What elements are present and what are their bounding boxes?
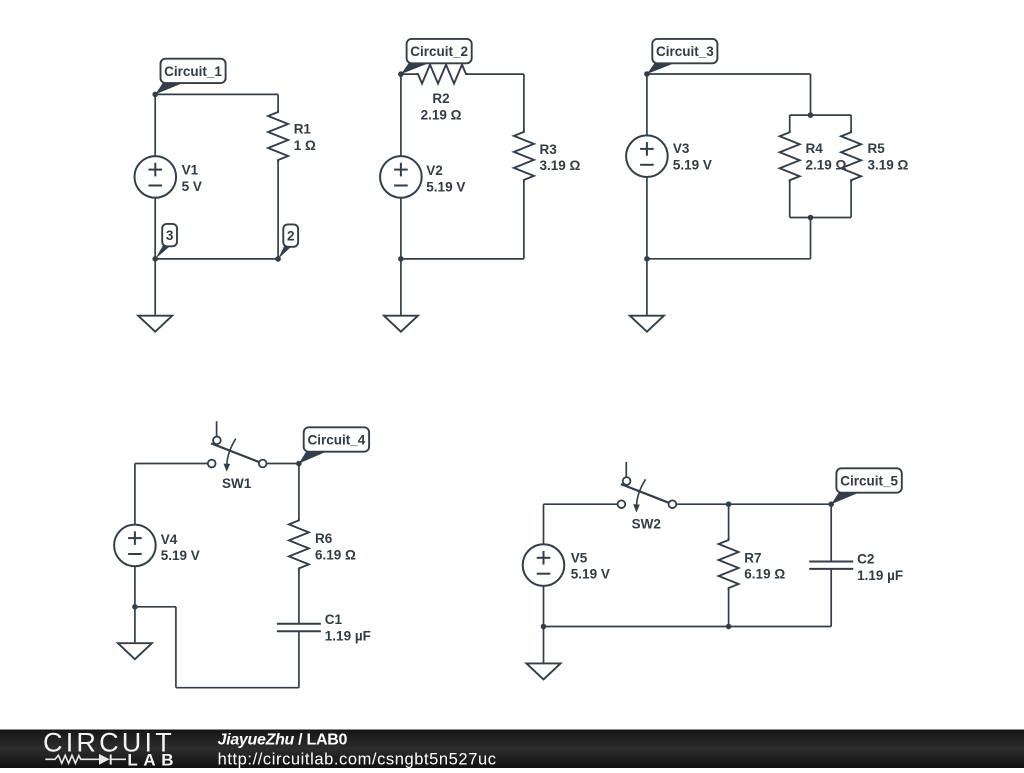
wire parallel bottom bracket circuit 3 — [790, 217, 851, 219]
wire left rail lower circuit 3 — [646, 177, 648, 259]
wire top rail circuit 2 — [466, 73, 524, 75]
wire left rail lower circuit 5 — [543, 586, 545, 627]
svg-text:R1: R1 — [294, 122, 312, 137]
svg-text:SW1: SW1 — [222, 476, 252, 491]
wire ground stem circuit 5 — [543, 627, 545, 664]
svg-text:2: 2 — [287, 229, 295, 244]
V5 value label — [571, 550, 610, 581]
R5 value label — [868, 141, 909, 172]
wire left rail lower circuit 4 — [134, 566, 136, 607]
node 2 — [275, 256, 281, 262]
svg-text:LAB: LAB — [127, 750, 179, 768]
wire bottom rail circuit 5 — [544, 626, 832, 628]
wire right rail lower circuit 5 — [830, 569, 832, 627]
wire top rail circuit 3 — [647, 73, 811, 75]
wire R5 bottom stub — [850, 180, 852, 217]
wire right rail upper circuit 1 — [277, 94, 279, 112]
svg-text:C2: C2 — [857, 552, 874, 567]
node parallel top circuit 3 — [808, 112, 814, 118]
V2 value label — [426, 163, 465, 194]
R6 value label — [315, 531, 356, 562]
resistor R3 — [514, 130, 534, 182]
svg-text:3: 3 — [166, 228, 174, 243]
wire right rail lower circuit 1 — [277, 160, 279, 259]
wire left rail upper circuit 4 — [134, 464, 136, 525]
svg-text:V2: V2 — [426, 163, 443, 178]
resistor R4 — [780, 130, 800, 182]
svg-text:5.19 V: 5.19 V — [426, 179, 465, 194]
svg-text:V1: V1 — [182, 163, 199, 178]
wire right rail lower circuit 2 — [523, 180, 525, 259]
svg-text:Circuit_5: Circuit_5 — [840, 473, 898, 488]
svg-text:5 V: 5 V — [182, 179, 202, 194]
node R7 top circuit 5 — [726, 501, 732, 507]
switch SW2 — [618, 462, 677, 513]
svg-text:5.19 V: 5.19 V — [571, 567, 610, 582]
wire right rail lower circuit 4 — [298, 631, 300, 688]
wire ground stem circuit 2 — [400, 259, 402, 316]
wire top rail right circuit 4 — [267, 463, 299, 465]
svg-text:1.19 µF: 1.19 µF — [325, 628, 371, 643]
voltage source V2 — [380, 156, 422, 198]
wire bottom rail circuit 4 — [176, 687, 299, 689]
voltage source V5 — [523, 544, 565, 586]
C2 value label — [857, 552, 903, 583]
node top-left circuit 3 — [644, 71, 650, 77]
svg-text:5.19 V: 5.19 V — [161, 548, 200, 563]
wire bottom descent circuit 3 — [810, 218, 812, 259]
svg-text:R3: R3 — [540, 142, 558, 157]
capacitor C1 — [277, 624, 321, 631]
svg-text:Circuit_4: Circuit_4 — [308, 432, 366, 447]
svg-text:2.19 Ω: 2.19 Ω — [421, 108, 462, 123]
svg-text:Circuit_1: Circuit_1 — [164, 64, 222, 79]
CircuitLab logo — [43, 728, 179, 770]
ground circuit 1 — [138, 316, 172, 332]
wire bottom rail circuit 2 — [401, 258, 524, 260]
voltage source V1 — [135, 156, 177, 198]
R3 value label — [540, 142, 581, 173]
V3 value label — [673, 141, 712, 172]
wire R4 top stub — [789, 115, 791, 132]
svg-text:2.19 Ω: 2.19 Ω — [806, 158, 847, 173]
wire left rail upper circuit 1 — [154, 94, 156, 156]
label Circuit_4 — [299, 427, 369, 463]
svg-text:http://circuitlab.com/csngbt5n: http://circuitlab.com/csngbt5n527uc — [218, 750, 497, 768]
svg-text:R6: R6 — [315, 531, 333, 546]
resistor R5 — [841, 130, 861, 182]
node bottom circuit 3 — [644, 256, 650, 262]
wire bottom rail circuit 1 — [155, 258, 278, 260]
node 2 label — [278, 224, 298, 259]
wire R7 bottom stub — [728, 588, 730, 627]
ground circuit 2 — [384, 316, 418, 332]
wire top rail left circuit 4 — [135, 463, 208, 465]
wire left rail upper circuit 5 — [543, 504, 545, 544]
node 3 — [152, 256, 158, 262]
capacitor C2 — [809, 562, 853, 569]
wire ground stem circuit 1 — [154, 259, 156, 316]
wire bottom jog vertical circuit 4 — [175, 607, 177, 688]
svg-text:C1: C1 — [325, 612, 343, 627]
svg-text:1 Ω: 1 Ω — [294, 138, 316, 153]
V4 value label — [161, 532, 200, 563]
svg-text:6.19 Ω: 6.19 Ω — [315, 547, 356, 562]
svg-text:5.19 V: 5.19 V — [673, 157, 712, 172]
svg-text:Circuit_2: Circuit_2 — [410, 44, 468, 59]
node bottom-left circuit 4 — [132, 604, 138, 610]
wire left rail upper circuit 2 — [400, 74, 402, 156]
ground circuit 3 — [630, 316, 664, 332]
resistor R7 — [719, 538, 739, 590]
resistor R2 — [416, 65, 468, 84]
svg-text:3.19 Ω: 3.19 Ω — [540, 158, 581, 173]
svg-text:R2: R2 — [432, 91, 449, 106]
node parallel bottom circuit 3 — [808, 215, 814, 221]
wire ground stem circuit 4 — [134, 607, 136, 643]
svg-text:1.19 µF: 1.19 µF — [857, 568, 903, 583]
wire right descent circuit 3 — [810, 74, 812, 115]
wire top rail circuit 1 — [155, 93, 278, 95]
node top-left circuit 1 — [152, 92, 158, 98]
wire right rail upper circuit 2 — [523, 74, 525, 132]
wire bottom jog horizontal circuit 4 — [135, 606, 176, 608]
ground circuit 4 — [118, 643, 152, 659]
svg-text:3.19 Ω: 3.19 Ω — [868, 158, 909, 173]
R4 value label — [806, 141, 847, 172]
wire right rail upper circuit 4 — [298, 464, 300, 521]
node 3 label — [155, 224, 177, 259]
svg-text:V3: V3 — [673, 141, 690, 156]
wire parallel top bracket circuit 3 — [790, 114, 851, 116]
resistor R6 — [289, 518, 309, 570]
label Circuit_1 — [155, 59, 225, 95]
wire left rail lower circuit 2 — [400, 198, 402, 259]
node top-right circuit 5 — [828, 501, 834, 507]
wire left rail lower circuit 1 — [154, 198, 156, 259]
C1 value label — [325, 612, 371, 643]
V1 value label — [182, 163, 202, 194]
svg-text:SW2: SW2 — [632, 517, 661, 532]
switch SW1 — [208, 421, 267, 472]
svg-text:JiayueZhu / LAB0: JiayueZhu / LAB0 — [218, 732, 348, 749]
voltage source V3 — [626, 135, 668, 177]
svg-text:R7: R7 — [744, 550, 761, 565]
node R7 bottom circuit 5 — [726, 624, 732, 630]
ground circuit 5 — [527, 663, 561, 679]
wire bottom rail circuit 3 — [647, 258, 811, 260]
svg-text:6.19 Ω: 6.19 Ω — [744, 567, 785, 582]
wire top-left stub circuit 2 — [401, 73, 418, 75]
node top-left circuit 2 — [398, 71, 404, 77]
label Circuit_2 — [401, 39, 472, 74]
svg-text:Circuit_3: Circuit_3 — [656, 44, 714, 59]
node top-right circuit 4 — [296, 461, 302, 467]
R7 value label — [744, 550, 785, 581]
R1 value label — [294, 122, 316, 153]
wire right rail middle circuit 4 — [298, 568, 300, 623]
node bottom circuit 2 — [398, 256, 404, 262]
wire R5 top stub — [850, 115, 852, 132]
svg-text:R5: R5 — [868, 141, 886, 156]
node bottom-left circuit 5 — [541, 624, 547, 630]
wire R4 bottom stub — [789, 180, 791, 217]
label Circuit_5 — [831, 468, 902, 504]
wire R7 top stub — [728, 504, 730, 540]
svg-text:V4: V4 — [161, 532, 178, 547]
resistor R1 — [268, 110, 288, 162]
label Circuit_3 — [647, 39, 717, 74]
wire left rail upper circuit 3 — [646, 74, 648, 136]
wire ground stem circuit 3 — [646, 259, 648, 316]
svg-text:R4: R4 — [806, 141, 824, 156]
wire top rail right circuit 5 — [676, 503, 831, 505]
wire right rail upper circuit 5 — [830, 504, 832, 561]
wire top rail left circuit 5 — [544, 503, 618, 505]
svg-text:V5: V5 — [571, 550, 588, 565]
voltage source V4 — [114, 525, 156, 567]
R2 value label — [421, 91, 462, 122]
